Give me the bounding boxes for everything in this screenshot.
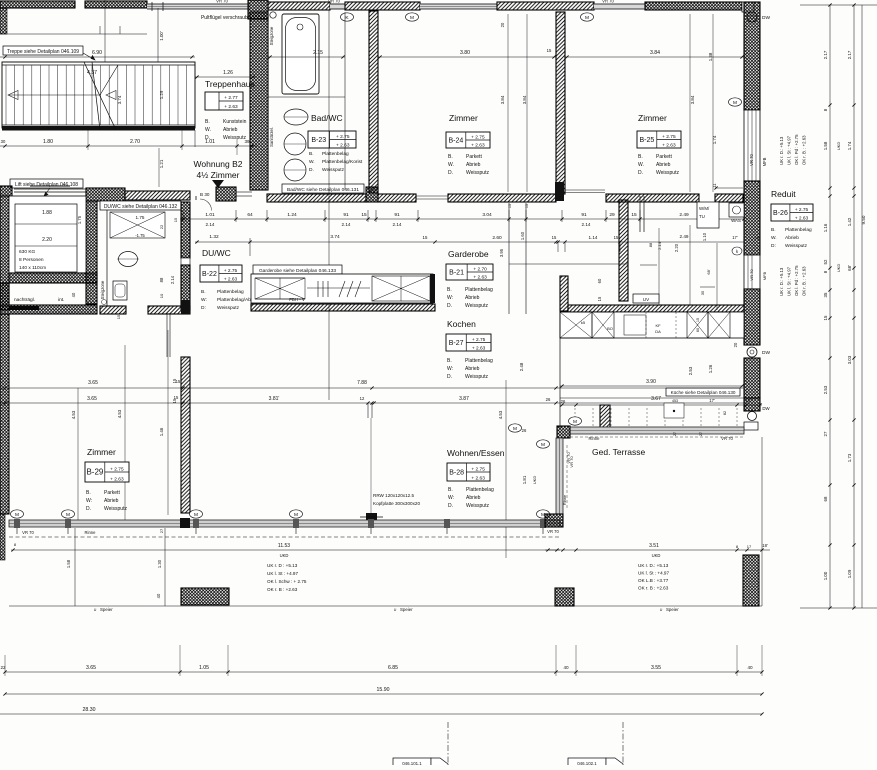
svg-text:W:: W:	[86, 498, 92, 504]
svg-text:RRW 120x120x12.5: RRW 120x120x12.5	[373, 493, 414, 498]
svg-text:B.: B.	[205, 119, 210, 125]
svg-text:B-29: B-29	[86, 468, 103, 477]
svg-text:Pultflügel verschraubt: Pultflügel verschraubt	[201, 15, 250, 21]
svg-text:2.20: 2.20	[674, 243, 679, 252]
svg-text:+ 2.63: + 2.63	[336, 142, 350, 148]
svg-text:Reduit: Reduit	[771, 189, 796, 199]
svg-text:630 KG: 630 KG	[19, 249, 36, 255]
svg-text:D.: D.	[638, 170, 643, 176]
svg-text:VR 70: VR 70	[569, 456, 574, 468]
svg-text:Weissputz: Weissputz	[656, 170, 679, 176]
svg-text:68': 68'	[847, 265, 852, 271]
svg-text:1.73: 1.73	[847, 453, 852, 462]
svg-text:+ 2.63: + 2.63	[795, 215, 809, 221]
svg-text:2.49: 2.49	[680, 234, 689, 239]
svg-text:Kunststein: Kunststein	[223, 119, 247, 125]
svg-text:20: 20	[733, 342, 738, 347]
svg-text:+ 2.75: + 2.75	[336, 134, 350, 140]
svg-text:+ 2.75: + 2.75	[662, 134, 676, 140]
svg-text:3.87: 3.87	[459, 396, 469, 402]
svg-text:KF: KF	[655, 323, 661, 328]
svg-text:B.: B.	[447, 358, 452, 364]
svg-text:UK l. St : +4.97: UK l. St : +4.97	[638, 571, 669, 576]
svg-text:68': 68'	[706, 269, 711, 274]
svg-text:1.58: 1.58	[66, 559, 71, 568]
svg-text:D.: D.	[448, 170, 453, 176]
svg-text:27: 27	[673, 432, 677, 436]
svg-text:+ 2.63: + 2.63	[224, 104, 238, 110]
svg-text:17': 17'	[709, 398, 715, 403]
svg-text:Plattenbelag: Plattenbelag	[465, 287, 493, 293]
svg-text:Plattenbelag: Plattenbelag	[466, 487, 494, 493]
svg-text:1.01: 1.01	[205, 212, 215, 218]
svg-text:17’: 17’	[732, 235, 738, 240]
svg-text:Speier: Speier	[400, 607, 413, 612]
svg-text:3.95: 3.95	[499, 248, 504, 257]
svg-text:W.: W.	[448, 162, 454, 168]
svg-text:Abrieb: Abrieb	[466, 495, 481, 501]
svg-text:15: 15	[823, 315, 828, 320]
svg-text:15: 15	[547, 48, 552, 53]
svg-text:Weissputz: Weissputz	[217, 305, 240, 311]
svg-text:88: 88	[159, 277, 164, 282]
svg-text:M: M	[573, 419, 577, 425]
svg-text:140 x 110cm: 140 x 110cm	[19, 265, 46, 271]
svg-text:1.26: 1.26	[223, 70, 233, 76]
svg-text:UKD: UKD	[652, 553, 661, 558]
svg-text:Garderobe siehe Detailplan 046: Garderobe siehe Detailplan 046.133	[259, 268, 336, 274]
svg-text:Bad/WC: Bad/WC	[311, 113, 343, 123]
svg-text:1.10: 1.10	[702, 232, 707, 241]
svg-text:15: 15	[172, 378, 177, 383]
svg-text:2.48: 2.48	[519, 362, 524, 371]
svg-text:UKD: UKD	[532, 476, 537, 485]
svg-text:35: 35	[823, 292, 828, 297]
svg-text:OK L.B : +3.77: OK L.B : +3.77	[638, 578, 669, 583]
svg-text:2.17: 2.17	[847, 50, 852, 59]
svg-text:18': 18'	[745, 398, 751, 403]
svg-text:+ 2.70: + 2.70	[473, 266, 487, 272]
svg-text:3.65: 3.65	[87, 396, 97, 402]
svg-text:B.: B.	[86, 490, 91, 496]
svg-text:4.37: 4.37	[87, 70, 97, 76]
svg-text:Abrieb: Abrieb	[466, 162, 481, 168]
svg-text:Abrieb: Abrieb	[656, 162, 671, 168]
svg-text:B-26: B-26	[773, 210, 788, 217]
svg-text:Ged. Terrasse: Ged. Terrasse	[592, 447, 646, 457]
svg-text:B-28: B-28	[449, 470, 464, 477]
svg-text:10: 10	[159, 293, 164, 298]
svg-text:M: M	[541, 512, 545, 518]
svg-text:DU/WC siehe Detailplan 046.132: DU/WC siehe Detailplan 046.132	[104, 204, 178, 210]
svg-text:15: 15	[172, 398, 177, 403]
svg-text:Kochen: Kochen	[447, 319, 476, 329]
svg-text:1.29: 1.29	[159, 90, 164, 99]
svg-text:W.: W.	[205, 127, 211, 133]
svg-text:U: U	[660, 608, 663, 612]
svg-text:+ 2.63: + 2.63	[662, 142, 676, 148]
svg-text:9.50: 9.50	[861, 215, 866, 224]
svg-text:1.75: 1.75	[77, 215, 82, 224]
svg-text:64: 64	[247, 212, 253, 218]
svg-text:8 Personen: 8 Personen	[19, 257, 44, 263]
svg-text:2.17: 2.17	[823, 50, 828, 59]
svg-text:15: 15	[173, 217, 178, 222]
svg-text:Steigzone: Steigzone	[269, 26, 274, 45]
svg-text:1.01: 1.01	[205, 139, 215, 145]
svg-text:M: M	[733, 100, 737, 106]
svg-text:3.84: 3.84	[500, 95, 505, 104]
svg-text:60: 60	[696, 328, 700, 332]
svg-text:1.80: 1.80	[43, 139, 53, 145]
svg-text:1.74: 1.74	[847, 141, 852, 150]
svg-text:Abrieb: Abrieb	[465, 295, 480, 301]
svg-text:Kopfplatte 300x300x20: Kopfplatte 300x300x20	[373, 501, 420, 506]
svg-text:OK l. Pd : +2.75: OK l. Pd : +2.75	[794, 265, 799, 296]
svg-text:+ 2.75: + 2.75	[471, 466, 485, 472]
svg-text:12: 12	[360, 396, 365, 401]
svg-text:Zimmer: Zimmer	[87, 447, 116, 457]
svg-text:UK l. St : +4.97: UK l. St : +4.97	[787, 135, 792, 165]
svg-text:2.49: 2.49	[679, 212, 689, 218]
svg-text:W:: W:	[448, 495, 454, 501]
svg-text:4.53: 4.53	[71, 410, 76, 419]
svg-text:UK l. St : +4.97: UK l. St : +4.97	[787, 266, 792, 296]
svg-text:B-23: B-23	[311, 137, 326, 144]
svg-text:UK l. St : +4.97: UK l. St : +4.97	[267, 571, 298, 576]
svg-text:1.88: 1.88	[42, 210, 52, 216]
svg-text:1.14: 1.14	[589, 235, 598, 240]
svg-text:W.: W.	[309, 159, 315, 165]
svg-text:D.: D.	[447, 374, 452, 380]
svg-text:Weissputz: Weissputz	[466, 170, 489, 176]
svg-text:VR 70: VR 70	[749, 154, 754, 166]
svg-text:Treppenhaus: Treppenhaus	[205, 79, 255, 89]
svg-text:3.65: 3.65	[88, 380, 98, 386]
svg-text:Abrieb: Abrieb	[104, 498, 119, 504]
svg-text:2.14: 2.14	[393, 222, 402, 227]
svg-text:+ 2.75: + 2.75	[795, 207, 809, 213]
svg-text:15: 15	[508, 204, 512, 208]
svg-text:Steigzone: Steigzone	[100, 280, 105, 299]
svg-text:D.: D.	[86, 506, 91, 512]
svg-text:2.53: 2.53	[823, 385, 828, 394]
svg-text:M: M	[410, 15, 414, 21]
svg-text:2.14: 2.14	[582, 222, 591, 227]
svg-text:4½ Zimmer: 4½ Zimmer	[197, 170, 240, 180]
svg-text:Weissputz: Weissputz	[465, 374, 488, 380]
svg-text:Bad/WC siehe Detailplan 046.13: Bad/WC siehe Detailplan 046.131	[287, 187, 359, 193]
svg-text:DW: DW	[762, 350, 770, 356]
svg-text:Küche siehe Detailplan 046.130: Küche siehe Detailplan 046.130	[671, 390, 736, 395]
svg-text:3.04: 3.04	[482, 212, 492, 218]
svg-text:B-21: B-21	[449, 270, 464, 277]
svg-text:27: 27	[159, 528, 164, 533]
svg-text:Abrieb: Abrieb	[785, 235, 799, 241]
svg-text:B.: B.	[448, 154, 453, 160]
svg-text:MFB: MFB	[762, 157, 767, 166]
svg-text:Plattenbelag: Plattenbelag	[217, 289, 244, 295]
svg-text:Speier: Speier	[666, 607, 679, 612]
svg-text:DU/WC: DU/WC	[202, 248, 231, 258]
svg-text:40: 40	[156, 593, 161, 598]
svg-text:3.74: 3.74	[117, 95, 122, 104]
svg-text:+ 2.63: + 2.63	[471, 475, 485, 481]
svg-text:VR 70: VR 70	[328, 0, 340, 4]
svg-text:3.84: 3.84	[690, 95, 695, 104]
svg-text:Plattenbelag: Plattenbelag	[785, 227, 812, 233]
svg-text:WAS: WAS	[731, 218, 741, 223]
svg-text:35: 35	[700, 290, 705, 295]
svg-text:1.32: 1.32	[209, 234, 219, 240]
svg-text:+ 2.63: + 2.63	[471, 142, 485, 148]
svg-text:3.81': 3.81'	[269, 396, 280, 402]
svg-text:Parkett: Parkett	[466, 154, 482, 160]
svg-text:15: 15	[361, 212, 367, 218]
svg-text:Plattenbelag/Korist: Plattenbelag/Korist	[322, 159, 363, 165]
svg-text:4.53: 4.53	[117, 409, 122, 418]
svg-text:Rinne: Rinne	[589, 436, 601, 441]
svg-text:2.14: 2.14	[170, 275, 175, 284]
svg-text:+ 2.63: + 2.63	[473, 274, 487, 280]
svg-text:M: M	[294, 512, 298, 518]
svg-text:DW: DW	[762, 15, 770, 21]
svg-text:1.81: 1.81	[522, 475, 527, 484]
svg-text:UK r. D : +5.13: UK r. D : +5.13	[267, 563, 298, 568]
svg-text:17: 17	[747, 544, 752, 549]
svg-text:Zimmer: Zimmer	[449, 113, 478, 123]
svg-text:Plattenbelag: Plattenbelag	[465, 358, 493, 364]
svg-text:B-24: B-24	[449, 138, 464, 145]
svg-text:1.60: 1.60	[520, 231, 525, 240]
svg-text:Abrieb: Abrieb	[223, 127, 238, 133]
svg-text:26: 26	[561, 399, 566, 404]
svg-text:1.09: 1.09	[847, 569, 852, 578]
svg-text:OK r. B : +2.63: OK r. B : +2.63	[267, 587, 298, 592]
svg-text:B-27: B-27	[449, 340, 464, 347]
svg-text:M: M	[513, 426, 517, 432]
svg-text:3.51: 3.51	[649, 543, 659, 549]
svg-text:2.14: 2.14	[657, 241, 662, 250]
svg-text:Wohnung B2: Wohnung B2	[194, 159, 243, 169]
svg-text:40: 40	[747, 665, 753, 670]
svg-text:15.90: 15.90	[377, 687, 390, 693]
svg-text:28.30: 28.30	[83, 707, 96, 713]
svg-text:6.90: 6.90	[92, 50, 102, 56]
svg-text:6.85: 6.85	[388, 665, 398, 671]
svg-text:Rinne: Rinne	[85, 530, 97, 535]
svg-text:D:: D:	[771, 243, 776, 249]
svg-text:OK r. B. : +2.63: OK r. B. : +2.63	[802, 266, 807, 296]
svg-text:2.60: 2.60	[492, 235, 502, 241]
svg-text:B.: B.	[447, 287, 452, 293]
svg-text:046.101.1: 046.101.1	[402, 761, 422, 765]
svg-text:20: 20	[500, 22, 505, 27]
svg-text:15: 15	[631, 212, 637, 218]
svg-text:+ 2.63: + 2.63	[224, 276, 238, 282]
svg-text:60: 60	[597, 278, 602, 283]
svg-text:+ 2.75: + 2.75	[110, 466, 124, 472]
svg-text:DW: DW	[762, 406, 770, 411]
svg-text:3.67: 3.67	[651, 396, 661, 402]
svg-text:+ 2.63: + 2.63	[472, 345, 486, 351]
svg-text:1.24: 1.24	[287, 212, 297, 218]
svg-text:3.55: 3.55	[651, 665, 661, 671]
svg-text:U: U	[94, 608, 97, 612]
svg-text:2.53: 2.53	[688, 366, 693, 375]
svg-text:2.14: 2.14	[342, 222, 351, 227]
svg-text:22: 22	[159, 224, 164, 229]
svg-text:39: 39	[244, 139, 250, 144]
svg-text:B.: B.	[201, 289, 206, 295]
svg-text:B.: B.	[638, 154, 643, 160]
svg-text:Weissputz: Weissputz	[322, 167, 345, 173]
svg-text:UV: UV	[643, 297, 650, 302]
svg-text:VR 70: VR 70	[721, 436, 733, 441]
svg-text:1.42: 1.42	[847, 217, 852, 226]
svg-text:29: 29	[609, 212, 615, 218]
svg-text:40: 40	[71, 292, 76, 297]
svg-text:30: 30	[1, 139, 6, 144]
svg-text:1.38: 1.38	[708, 52, 713, 61]
svg-text:D.: D.	[309, 167, 314, 173]
svg-text:OK l. Pd : +2.75: OK l. Pd : +2.75	[794, 134, 799, 165]
svg-text:Lift siehe Detailplan 046.108: Lift siehe Detailplan 046.108	[15, 182, 78, 188]
svg-text:W:: W:	[201, 297, 207, 303]
svg-text:VR 70: VR 70	[547, 529, 559, 534]
svg-text:U: U	[394, 608, 397, 612]
svg-text:1.00: 1.00	[823, 571, 828, 580]
svg-text:M: M	[15, 512, 19, 518]
svg-text:D:: D:	[201, 305, 206, 311]
svg-text:+ 2.75: + 2.75	[472, 337, 486, 343]
svg-text:Speier: Speier	[100, 607, 113, 612]
svg-text:82: 82	[723, 411, 727, 415]
svg-text:91: 91	[343, 212, 349, 218]
svg-text:1.74: 1.74	[712, 135, 717, 144]
svg-text:Weissputz: Weissputz	[785, 243, 808, 249]
svg-text:+ 2.75: + 2.75	[471, 134, 485, 140]
svg-text:1.00': 1.00'	[159, 31, 164, 41]
svg-text:Sanitärzel.: Sanitärzel.	[269, 127, 274, 147]
svg-text:UK r. D.: +5.13: UK r. D.: +5.13	[779, 267, 784, 296]
svg-text:UK r. D.: +5.13: UK r. D.: +5.13	[779, 136, 784, 165]
svg-text:3.84: 3.84	[522, 95, 527, 104]
svg-text:3.03: 3.03	[847, 355, 852, 364]
svg-text:2.14: 2.14	[206, 222, 215, 227]
svg-text:FBH - V: FBH - V	[289, 297, 305, 302]
svg-text:15: 15	[614, 235, 619, 240]
svg-text:2.15: 2.15	[313, 50, 323, 56]
svg-text:88: 88	[648, 242, 653, 247]
svg-text:Weissputz: Weissputz	[466, 503, 489, 509]
svg-text:MFB: MFB	[762, 271, 767, 280]
svg-text:W/M/: W/M/	[699, 206, 710, 211]
svg-text:UK r. D.: +5.13: UK r. D.: +5.13	[638, 563, 669, 568]
svg-text:UKD: UKD	[836, 142, 841, 151]
svg-text:3.84: 3.84	[650, 50, 660, 56]
svg-text:3.74: 3.74	[330, 234, 340, 240]
svg-text:B.: B.	[771, 227, 776, 233]
svg-text:453: 453	[672, 399, 678, 403]
svg-text:Abrieb: Abrieb	[465, 366, 480, 372]
svg-text:046.102.1: 046.102.1	[577, 761, 597, 765]
svg-text:Treppe siehe Detailplan 046.10: Treppe siehe Detailplan 046.109	[7, 49, 79, 55]
svg-text:1.75: 1.75	[136, 215, 145, 220]
svg-text:2.70: 2.70	[130, 139, 140, 145]
svg-text:+ 2.77: + 2.77	[224, 95, 238, 101]
svg-text:Parkett: Parkett	[656, 154, 672, 160]
svg-text:Zimmer: Zimmer	[638, 113, 667, 123]
svg-text:4.53: 4.53	[498, 410, 503, 419]
svg-text:M: M	[194, 512, 198, 518]
svg-text:27: 27	[823, 431, 828, 436]
svg-text:Weissputz: Weissputz	[223, 135, 246, 141]
svg-text:W.: W.	[771, 235, 777, 241]
svg-text:VR 70: VR 70	[749, 269, 754, 281]
svg-text:VR 70: VR 70	[22, 530, 34, 535]
svg-text:B.: B.	[309, 151, 314, 157]
svg-text:int.: int.	[58, 297, 64, 303]
svg-text:Wohnen/Essen: Wohnen/Essen	[447, 448, 505, 458]
svg-text:M: M	[585, 15, 589, 21]
svg-text:Weissputz: Weissputz	[104, 506, 127, 512]
svg-text:15: 15	[696, 318, 700, 322]
svg-text:18: 18	[755, 236, 759, 240]
svg-text:2.20: 2.20	[42, 237, 52, 243]
svg-text:1.30: 1.30	[157, 559, 162, 568]
svg-text:B 30: B 30	[200, 192, 210, 197]
svg-text:1.21: 1.21	[159, 159, 164, 168]
svg-text:26: 26	[546, 397, 551, 402]
svg-text:TU: TU	[699, 214, 705, 219]
svg-text:D.: D.	[447, 303, 452, 309]
svg-text:7.88: 7.88	[357, 380, 367, 386]
svg-text:1.26: 1.26	[708, 364, 713, 373]
svg-text:D.: D.	[448, 503, 453, 509]
svg-text:nachträgl.: nachträgl.	[14, 297, 35, 303]
svg-text:VR 70: VR 70	[602, 0, 614, 4]
svg-text:-1.75: -1.75	[135, 233, 145, 238]
svg-text:DA: DA	[655, 329, 661, 334]
svg-text:B-22: B-22	[202, 271, 217, 278]
svg-text:Parkett: Parkett	[104, 490, 120, 496]
svg-text:B-25: B-25	[640, 137, 655, 144]
svg-text:18': 18'	[762, 543, 768, 548]
svg-text:15: 15	[116, 314, 121, 319]
svg-text:W:: W:	[447, 295, 453, 301]
svg-text:11.53: 11.53	[278, 543, 290, 549]
svg-text:1.05: 1.05	[199, 665, 209, 671]
svg-text:15: 15	[597, 296, 602, 301]
svg-text:M: M	[541, 442, 545, 448]
svg-text:1.16: 1.16	[823, 223, 828, 232]
svg-text:15: 15	[423, 235, 428, 240]
svg-text:1.58: 1.58	[823, 141, 828, 150]
svg-text:UKD: UKD	[280, 553, 289, 558]
svg-text:+ 2.63: + 2.63	[110, 476, 124, 482]
svg-text:VR 70: VR 70	[216, 0, 228, 4]
svg-text:40: 40	[563, 665, 569, 670]
svg-text:52: 52	[823, 259, 828, 264]
svg-text:W.: W.	[638, 162, 644, 168]
svg-text:Weissputz: Weissputz	[465, 303, 488, 309]
svg-text:91: 91	[581, 212, 587, 218]
svg-text:OK r. B : +2.63: OK r. B : +2.63	[638, 586, 669, 591]
svg-text:W:: W:	[447, 366, 453, 372]
svg-text:68: 68	[823, 496, 828, 501]
svg-text:15: 15	[525, 204, 529, 208]
